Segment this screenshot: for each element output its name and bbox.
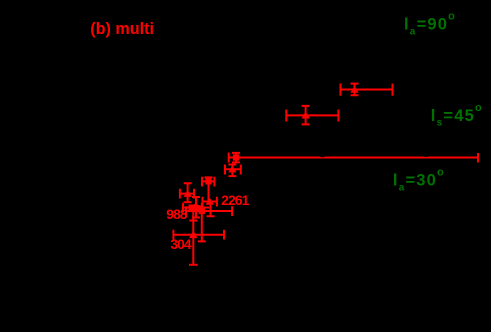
- point P9 y-error bar: [198, 203, 206, 241]
- cluster overlap blob: [190, 205, 204, 212]
- point P1 triangle marker: [350, 86, 358, 93]
- point P7 triangle marker: [184, 190, 192, 197]
- point P4 y-error bar: [228, 165, 236, 177]
- svg-text:(b) multi: (b) multi: [90, 20, 154, 38]
- svg-text:988: 988: [166, 207, 188, 222]
- point P8 y-error bar: [192, 197, 200, 218]
- point P7 x-error bar: [180, 189, 194, 199]
- point P10 y-error bar: [189, 212, 198, 265]
- black overlap blob 2 on long line: [423, 154, 429, 157]
- point P8 circle marker: [192, 204, 200, 212]
- point P8 x-error bar: [183, 203, 209, 213]
- cluster extra square marker: [189, 205, 195, 211]
- point P4 x-error bar: [225, 165, 241, 175]
- svg-text:304: 304: [170, 237, 192, 252]
- point P1 x-error bar: [341, 84, 393, 96]
- point P3 y-error bar: [232, 153, 240, 163]
- black overlap blob 1 on long line: [319, 153, 325, 157]
- point P2 y-error bar: [302, 106, 310, 125]
- point P3 square marker: [233, 154, 239, 160]
- point P10 x-error bar: [173, 230, 224, 240]
- point P5 y-error bar: [205, 177, 213, 201]
- point P6 y-error bar: [207, 202, 215, 217]
- point P2 x-error bar: [286, 110, 338, 122]
- point P10 triangle marker: [189, 231, 198, 238]
- point P9 x-error bar: [186, 206, 232, 216]
- point P1 y-error bar: [351, 84, 359, 96]
- svg-text:2261: 2261: [221, 193, 249, 208]
- point P9 square marker: [199, 208, 205, 214]
- point P5 x-error bar: [202, 177, 214, 187]
- point P6 triangle marker: [206, 198, 214, 205]
- point P4 triangle marker: [228, 165, 236, 172]
- point P3 long x-error bar: [229, 153, 478, 163]
- point P2 triangle marker: [302, 112, 310, 119]
- point P7 y-error bar: [184, 183, 192, 202]
- point P5 square marker: [205, 178, 211, 184]
- point P6 x-error bar: [203, 197, 217, 207]
